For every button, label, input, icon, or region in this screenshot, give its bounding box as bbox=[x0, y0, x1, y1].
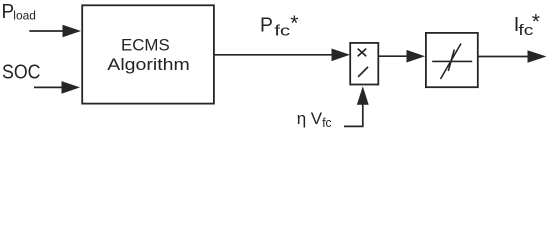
svg-text:SOC: SOC bbox=[2, 61, 41, 84]
block product U1 (multiply/divide) bbox=[350, 43, 378, 85]
symbol rate limiter axis bbox=[432, 60, 472, 62]
arrowhead up into product block bbox=[357, 86, 369, 105]
svg-text:η: η bbox=[297, 109, 306, 128]
svg-text:P: P bbox=[2, 1, 15, 23]
wire SOC input bbox=[34, 86, 64, 88]
svg-text:Algorithm: Algorithm bbox=[107, 55, 189, 74]
arrowhead into product block bbox=[332, 49, 351, 62]
arrowhead into rate limiter bbox=[407, 50, 426, 63]
wire ECMS output Pfc* bbox=[214, 54, 335, 56]
symbol rate limiter diagonal bbox=[441, 44, 462, 80]
svg-text:*: * bbox=[532, 11, 540, 34]
svg-text:V: V bbox=[311, 109, 323, 128]
svg-text:fc: fc bbox=[274, 23, 290, 40]
block ECMS Algorithm bbox=[82, 5, 214, 103]
arrowhead Ifc* output bbox=[528, 50, 547, 63]
svg-text:ECMS: ECMS bbox=[121, 36, 170, 55]
symbol divide slash bbox=[358, 67, 368, 77]
svg-text:fc: fc bbox=[322, 116, 331, 130]
arrowhead SOC into ECMS bbox=[62, 81, 81, 94]
wire product to rate limiter bbox=[378, 55, 410, 57]
arrowhead Pload into ECMS bbox=[63, 25, 82, 38]
wire Pload input bbox=[29, 30, 66, 32]
block rate limiter bbox=[426, 33, 478, 87]
wire eta Vfc elbow bbox=[344, 104, 363, 126]
svg-text:load: load bbox=[13, 8, 36, 22]
svg-text:P: P bbox=[260, 15, 273, 37]
wire Ifc* output bbox=[478, 56, 531, 58]
symbol rate limiter slash bbox=[448, 50, 454, 72]
symbol multiply x bbox=[358, 49, 367, 57]
svg-text:*: * bbox=[290, 12, 298, 35]
